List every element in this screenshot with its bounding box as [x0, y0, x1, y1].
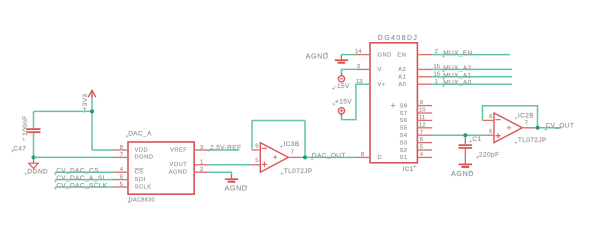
- svg-text:S3: S3: [400, 140, 408, 146]
- pin 4 S1 stub: [417, 156, 432, 158]
- svg-text:9: 9: [420, 100, 423, 106]
- svg-text:7: 7: [120, 152, 123, 158]
- pin 6 stub IC2B: [483, 119, 495, 121]
- wire net CV_DAC_A_SI: [55, 179, 113, 181]
- label DGND: [24, 168, 48, 175]
- svg-text:D: D: [378, 155, 383, 161]
- name IC3B: [280, 141, 300, 148]
- wire feedback loop IC2B: [483, 106, 538, 128]
- svg-text:TL072JP: TL072JP: [518, 137, 547, 144]
- pin 8 D stub: [355, 156, 370, 158]
- svg-text:CV_OUT: CV_OUT: [546, 123, 575, 130]
- svg-text:S8: S8: [400, 103, 408, 109]
- wire net MUX_A2: [432, 68, 512, 70]
- ground AGND (C1): [459, 164, 472, 167]
- name DAC_A: [126, 131, 152, 138]
- pin 7 stub IC2B output: [522, 127, 535, 129]
- svg-text:+3V3: +3V3: [82, 94, 89, 111]
- svg-text:MUX_EN: MUX_EN: [443, 50, 473, 57]
- svg-text:5: 5: [489, 129, 492, 135]
- svg-text:3: 3: [200, 145, 203, 151]
- svg-text:2: 2: [200, 167, 203, 173]
- CS overline: [135, 168, 144, 170]
- value DAC8830: [128, 198, 155, 204]
- label AGND (mux): [306, 52, 329, 61]
- svg-text:DAC_OUT: DAC_OUT: [312, 153, 346, 160]
- pin names mux left: [378, 52, 392, 161]
- svg-text:MUX_A0: MUX_A0: [443, 80, 471, 87]
- svg-text:DGND: DGND: [135, 155, 154, 161]
- svg-text:GND: GND: [378, 52, 392, 58]
- pin numbers mux right: [419, 49, 440, 158]
- pin names mux right: [397, 52, 408, 161]
- wire net CV_DAC_CS: [55, 171, 113, 173]
- svg-text:AGND: AGND: [451, 169, 474, 178]
- svg-text:6: 6: [420, 137, 423, 143]
- wire S4 to op-amp IC2B: [432, 134, 485, 136]
- svg-text:3: 3: [357, 64, 360, 70]
- value 100nF: [22, 115, 29, 140]
- label CV_OUT: [544, 123, 574, 131]
- pin 12 S5 stub: [417, 127, 432, 129]
- pin 6 stub IC3B: [252, 149, 260, 151]
- DAC U box: [128, 142, 194, 194]
- svg-text:2.5V-REF: 2.5V-REF: [210, 145, 241, 152]
- pin 7 DGND stub: [113, 156, 128, 158]
- node junction IC3B output: [303, 155, 307, 159]
- op-amp IC3B plus marker: [262, 162, 267, 167]
- svg-text:7: 7: [291, 150, 294, 156]
- svg-text:TL072JP: TL072JP: [284, 168, 313, 175]
- pin 2 EN stub: [417, 54, 432, 56]
- svg-text:6: 6: [120, 174, 123, 180]
- svg-text:DAC_A: DAC_A: [128, 131, 152, 138]
- svg-text:S7: S7: [400, 111, 408, 117]
- svg-text:1: 1: [200, 160, 203, 166]
- pin 6 SDI stub: [113, 179, 128, 181]
- capacitor C47: [27, 111, 41, 157]
- label MUX_EN: [442, 50, 473, 58]
- pin 15 A2 stub: [417, 68, 432, 70]
- svg-text:DG408DJ: DG408DJ: [378, 35, 418, 42]
- pin 1 VOUT stub: [194, 164, 209, 166]
- svg-text:C1: C1: [472, 136, 481, 143]
- label AGND (C1): [451, 169, 474, 178]
- svg-text:5: 5: [420, 145, 423, 151]
- svg-text:7: 7: [525, 121, 528, 127]
- wire DGND row to DAC pin 7: [34, 156, 114, 158]
- node junction cap bottom / DGND: [32, 155, 36, 159]
- wire cap top to +3V3 stem: [34, 110, 93, 112]
- svg-text:S4: S4: [400, 133, 408, 139]
- ground DGND: [29, 157, 38, 168]
- svg-text:11: 11: [419, 115, 425, 121]
- label MUX_A0: [442, 80, 472, 88]
- pin 1 A0 stub: [417, 83, 432, 85]
- svg-text:A2: A2: [398, 67, 406, 73]
- label DAC_OUT: [311, 153, 346, 161]
- svg-text:IC3B: IC3B: [284, 141, 300, 148]
- label -15V: [332, 83, 350, 90]
- pin 3 V- stub: [356, 68, 370, 70]
- svg-text:C47: C47: [13, 145, 26, 152]
- svg-text:14: 14: [355, 49, 362, 55]
- svg-text:CV_DAC_A_SI: CV_DAC_A_SI: [56, 175, 104, 182]
- op-amp IC2B triangle: [494, 113, 522, 143]
- wire VDD row horizontal: [92, 149, 113, 151]
- svg-text:AGND: AGND: [169, 170, 188, 176]
- node junction IC2B output: [536, 126, 540, 130]
- label AGND (DAC): [225, 184, 248, 193]
- svg-text:CV_DAC_CS: CV_DAC_CS: [56, 168, 99, 175]
- wire net MUX_EN: [432, 54, 510, 56]
- pin numbers mux left: [355, 49, 364, 158]
- wire GND pin to AGND symbol: [341, 54, 355, 56]
- wire VOUT to op-amp: [209, 164, 252, 166]
- op-amp IC2B minus marker: [495, 119, 500, 121]
- node junction at +3V3 stem: [90, 109, 94, 113]
- value TL072JP (IC2B): [515, 137, 547, 144]
- svg-text:8: 8: [361, 152, 364, 158]
- svg-text:S1: S1: [400, 155, 408, 161]
- pin 7 S4 stub: [417, 134, 432, 136]
- value DG408DJ: [378, 35, 418, 43]
- name IC1: [403, 165, 417, 173]
- svg-text:S6: S6: [400, 118, 408, 124]
- svg-text:SDI: SDI: [135, 177, 146, 183]
- name C1: [469, 136, 481, 143]
- wire V+ to +15V supply: [342, 84, 371, 119]
- svg-text:5: 5: [120, 182, 123, 188]
- pin 4 CS stub: [113, 171, 128, 173]
- label +3V3: [82, 94, 89, 113]
- supply +3V3 arrow: [88, 90, 96, 97]
- svg-text:MUX_A1: MUX_A1: [443, 72, 471, 79]
- pin numbers DAC left: [120, 145, 124, 188]
- svg-text:220pF: 220pF: [479, 152, 499, 159]
- op-amp IC3B triangle: [260, 143, 288, 173]
- label CV_DAC_A_SI: [54, 175, 105, 183]
- pin 5 SCLK stub: [113, 186, 128, 188]
- pin 9 S8 stub: [417, 105, 432, 107]
- wire net 2.5V-REF: [209, 149, 239, 151]
- pin 5 S2 stub: [417, 149, 432, 151]
- svg-text:CS: CS: [135, 170, 144, 176]
- svg-text:AGND: AGND: [225, 184, 248, 193]
- label CV_DAC_CS: [54, 168, 99, 176]
- label CV_DAC_SCLK: [54, 182, 108, 190]
- label 2.5V-REF: [208, 145, 242, 153]
- pin 14 GND stub: [355, 54, 370, 56]
- op-amp IC3B origin cross: [273, 155, 277, 159]
- wire net CV_DAC_SCLK: [55, 186, 113, 188]
- svg-text:6: 6: [489, 114, 492, 120]
- op-amp IC2B origin cross: [507, 126, 511, 130]
- node junction S4 / C1: [463, 133, 467, 137]
- svg-text:VREF: VREF: [170, 147, 187, 153]
- label +15V: [333, 99, 353, 106]
- pin 2 AGND stub: [194, 171, 209, 173]
- svg-text:6: 6: [255, 144, 258, 150]
- svg-text:8: 8: [120, 145, 123, 151]
- svg-text:S5: S5: [400, 126, 408, 132]
- svg-text:IC2B: IC2B: [518, 113, 534, 120]
- svg-text:10: 10: [419, 108, 425, 114]
- ground AGND (mux): [335, 55, 348, 63]
- value 220pF: [476, 152, 499, 159]
- wire net MUX_A1: [432, 76, 512, 78]
- svg-text:VDD: VDD: [135, 147, 149, 153]
- svg-text:A0: A0: [398, 82, 406, 88]
- svg-text:100nF: 100nF: [22, 115, 29, 135]
- ground AGND (DAC): [225, 175, 238, 182]
- svg-text:EN: EN: [397, 52, 406, 58]
- svg-text:-15V: -15V: [334, 83, 350, 90]
- pin 13 V+ stub: [356, 83, 370, 85]
- svg-text:DAC8830: DAC8830: [129, 198, 155, 204]
- wire net CV_OUT: [535, 127, 561, 129]
- pin names DAC left: [135, 147, 154, 190]
- pin 11 S6 stub: [417, 119, 432, 121]
- wire +3V3 vertical stem to VDD corner: [91, 95, 93, 151]
- mux IC1 box: [370, 43, 417, 163]
- svg-text:A1: A1: [398, 75, 406, 81]
- pin 3 VREF stub: [194, 149, 209, 151]
- svg-text:VOUT: VOUT: [169, 162, 187, 168]
- value TL072JP (IC3B): [280, 168, 312, 175]
- svg-text:SCLK: SCLK: [135, 184, 152, 190]
- pin 16 A1 stub: [417, 76, 432, 78]
- pin 5 stub IC3B: [252, 164, 260, 166]
- wire V- to -15V supply: [342, 69, 356, 73]
- svg-text:V+: V+: [378, 82, 386, 88]
- pin 10 S7 stub: [417, 112, 432, 114]
- mux IC1 origin cross: [391, 103, 395, 107]
- label MUX_A1: [442, 72, 472, 80]
- label MUX_A2: [442, 65, 472, 73]
- wire AGND from DAC pin 2: [209, 172, 232, 175]
- pin 7 stub IC3B output: [288, 156, 301, 158]
- op-amp IC3B minus marker: [262, 147, 267, 149]
- supply -15V: [338, 73, 344, 82]
- svg-text:7: 7: [420, 130, 423, 136]
- pin 8 VDD stub: [113, 149, 128, 151]
- svg-text:12: 12: [419, 122, 425, 128]
- svg-text:S2: S2: [400, 148, 408, 154]
- svg-text:CV_DAC_SCLK: CV_DAC_SCLK: [56, 182, 108, 189]
- pin 6 S3 stub: [417, 142, 432, 144]
- capacitor C1: [459, 135, 473, 163]
- svg-text:MUX_A2: MUX_A2: [443, 65, 471, 72]
- svg-text:+15V: +15V: [335, 99, 352, 106]
- wire feedback loop IC3B: [252, 121, 305, 158]
- name IC2B: [515, 113, 534, 120]
- svg-text:DGND: DGND: [27, 168, 48, 175]
- wire DAC_OUT from op-amp to mux: [301, 156, 355, 158]
- supply +15V: [338, 108, 344, 117]
- svg-text:IC1: IC1: [403, 166, 414, 173]
- svg-text:V-: V-: [378, 67, 384, 73]
- pin names DAC right: [169, 147, 188, 175]
- op-amp IC2B plus marker: [496, 133, 501, 138]
- name C47: [11, 145, 26, 152]
- svg-text:AGND: AGND: [306, 52, 329, 61]
- wire net MUX_A0: [432, 83, 512, 85]
- pin 5 stub IC2B: [485, 134, 494, 136]
- pin numbers DAC right: [200, 145, 203, 173]
- svg-text:5: 5: [255, 158, 258, 164]
